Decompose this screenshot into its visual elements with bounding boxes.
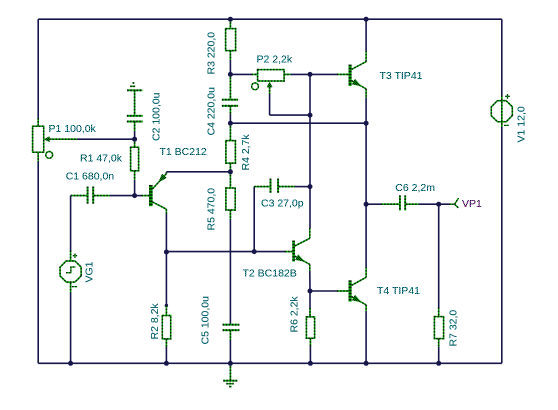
svg-text:C3 27,0p: C3 27,0p (261, 198, 304, 210)
svg-text:R3 220,0: R3 220,0 (206, 32, 218, 75)
svg-text:P1 100,0k: P1 100,0k (49, 123, 97, 135)
svg-text:VG1: VG1 (84, 261, 96, 282)
svg-text:C2 100,0u: C2 100,0u (151, 92, 163, 141)
svg-text:R5 470,0: R5 470,0 (205, 188, 217, 231)
svg-text:R4 2,7k: R4 2,7k (240, 134, 252, 171)
svg-text:C1 680,0n: C1 680,0n (66, 171, 115, 183)
svg-text:T2 BC182B: T2 BC182B (243, 267, 297, 279)
svg-text:V1 12,0: V1 12,0 (516, 106, 528, 142)
svg-text:VP1: VP1 (462, 198, 482, 210)
svg-text:C6 2,2m: C6 2,2m (395, 182, 435, 194)
svg-text:R1 47,0k: R1 47,0k (80, 152, 123, 164)
svg-text:C5 100,0u: C5 100,0u (200, 296, 212, 345)
svg-text:R2 8,2k: R2 8,2k (149, 303, 161, 340)
svg-text:T3 TIP41: T3 TIP41 (380, 70, 423, 82)
svg-text:R7 32,0: R7 32,0 (448, 310, 460, 347)
svg-text:C4 220,0u: C4 220,0u (206, 87, 218, 136)
svg-text:P2 2,2k: P2 2,2k (257, 54, 293, 66)
svg-text:T1 BC212: T1 BC212 (160, 146, 207, 158)
svg-text:T4 TIP41: T4 TIP41 (377, 285, 420, 297)
svg-text:R6 2,2k: R6 2,2k (289, 296, 301, 333)
